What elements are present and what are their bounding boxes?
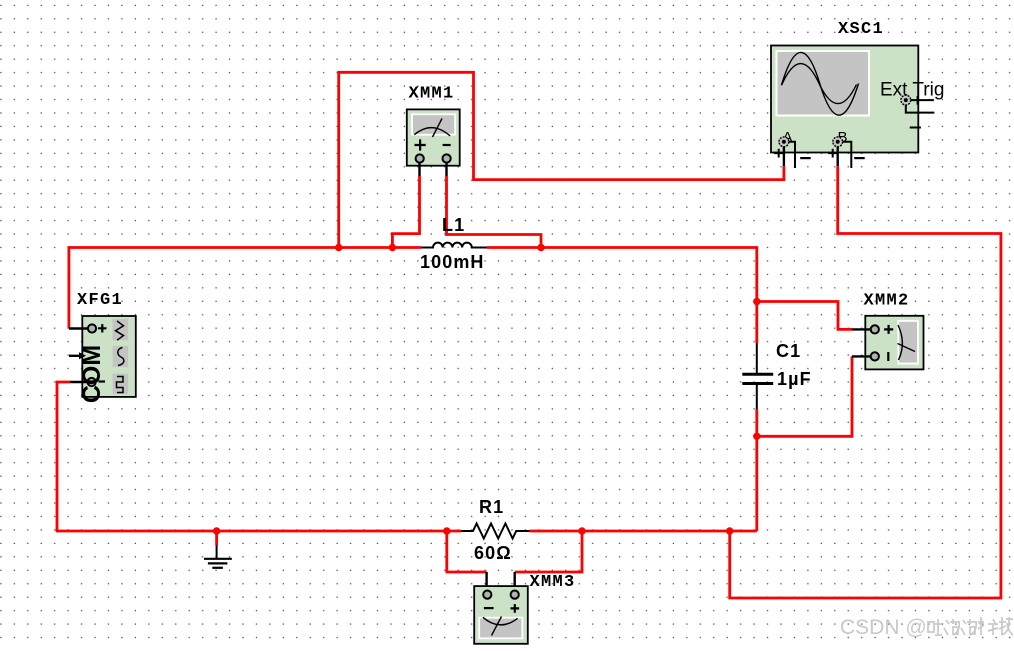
node junction [389, 244, 396, 251]
pin A terminal [774, 137, 811, 168]
wire [515, 531, 582, 572]
svg-text:100mH: 100mH [420, 252, 485, 272]
svg-text:L1: L1 [442, 215, 465, 235]
svg-text:XMM3: XMM3 [530, 573, 576, 592]
function generator XFG1 [69, 316, 136, 403]
wire [757, 356, 852, 436]
wire [57, 382, 461, 531]
pin B terminal [828, 137, 865, 168]
wire [757, 302, 852, 330]
svg-text:XFG1: XFG1 [77, 291, 123, 310]
multimeter XMM2 [852, 316, 924, 370]
resistor R1 [461, 524, 529, 539]
wire [487, 248, 757, 344]
wire [215, 531, 218, 545]
svg-text:XMM1: XMM1 [409, 85, 455, 104]
svg-text:CSDN @: CSDN @ [840, 616, 927, 639]
node junction [753, 433, 760, 440]
watermark CJK glyphs [928, 617, 1013, 635]
wire [392, 176, 419, 248]
multimeter XMM1 [407, 109, 460, 176]
svg-text:XSC1: XSC1 [838, 20, 884, 39]
ground [204, 545, 232, 568]
inductor L1 [421, 243, 487, 248]
capacitor C1 [742, 343, 773, 409]
svg-text:1µF: 1µF [777, 369, 812, 389]
node junction [753, 298, 760, 305]
wire [447, 531, 487, 572]
pin Ext Trig terminal [901, 95, 935, 127]
svg-text:COM: COM [78, 345, 106, 403]
node junction [726, 527, 733, 534]
svg-text:Ext Trig: Ext Trig [880, 80, 944, 101]
oscilloscope XSC1 [771, 46, 918, 153]
node junction [537, 244, 544, 251]
svg-text:C1: C1 [776, 341, 801, 361]
wire [339, 72, 784, 247]
svg-text:60Ω: 60Ω [474, 543, 512, 563]
wire [730, 166, 1001, 598]
node junction [213, 527, 220, 534]
wire [529, 530, 756, 533]
svg-text:XMM2: XMM2 [864, 292, 910, 311]
multimeter XMM3 [474, 572, 528, 644]
node junction [578, 527, 585, 534]
node junction [335, 244, 342, 251]
svg-text:R1: R1 [479, 497, 504, 517]
node junction [443, 527, 450, 534]
wire [69, 248, 421, 329]
wire [755, 409, 758, 531]
wire [447, 176, 542, 248]
